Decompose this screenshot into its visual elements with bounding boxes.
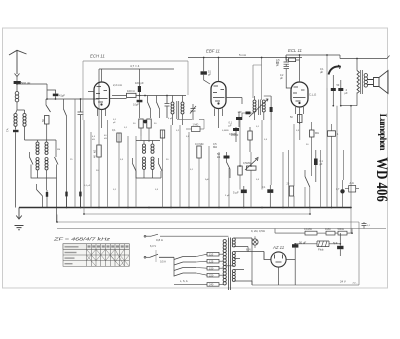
svg-text:A-Ω: A-Ω [350, 182, 354, 185]
coil osc1 right upper [45, 142, 48, 154]
capacitor antenna [13, 130, 19, 132]
svg-text:4 µF: 4 µF [168, 118, 173, 120]
svg-text:150: 150 [209, 266, 214, 270]
electrolytic 5uF [241, 190, 247, 194]
capacitor 100pF det [246, 112, 251, 115]
svg-text:0,5MΩ: 0,5MΩ [243, 161, 251, 165]
coil osc1 left lower [36, 158, 39, 170]
resistor 0.5M det [248, 131, 252, 140]
svg-text:Zu L.: Zu L. [353, 283, 358, 285]
capacitor 41pF [53, 94, 59, 97]
tap resistor 150 [207, 266, 219, 270]
capacitor 0.1uF [236, 117, 242, 120]
wire rail drop T2 [253, 58, 262, 101]
transformer heater winding [232, 238, 235, 247]
transformer primary winding [223, 240, 226, 285]
svg-text:0,1 µF: 0,1 µF [84, 185, 91, 187]
tap resistor 220 [207, 273, 219, 277]
svg-text:5 mA: 5 mA [239, 53, 246, 57]
svg-text:AZ 11: AZ 11 [272, 245, 285, 250]
IF T2 core [258, 100, 260, 116]
rectifier AZ11 [271, 252, 286, 267]
svg-text:0,5 A: 0,5 A [160, 260, 166, 264]
svg-text:100: 100 [238, 111, 243, 114]
resistor 500 row [338, 231, 347, 235]
svg-text:µF: µF [320, 70, 323, 74]
svg-text:500Ω: 500Ω [338, 227, 344, 231]
IF T2 coil left [253, 100, 256, 112]
capacitor 51pF [201, 71, 207, 74]
switch tone [305, 177, 310, 188]
svg-text:500 pF: 500 pF [21, 81, 31, 85]
svg-text:0,5MΩ: 0,5MΩ [222, 130, 229, 132]
coil osc2 right lower [151, 157, 154, 169]
tap resistor 240 [207, 283, 219, 287]
svg-text:ZF = 468/4/7 kHz: ZF = 468/4/7 kHz [52, 237, 110, 242]
svg-text:220: 220 [209, 273, 214, 277]
dial lamp [252, 239, 258, 245]
svg-text:9, 2Ω, 0,5Ω: 9, 2Ω, 0,5Ω [251, 229, 265, 233]
capacitor trim2 [165, 96, 170, 119]
voltage selector [174, 257, 196, 277]
resistor mid2 [160, 130, 164, 138]
svg-text:0,8 A: 0,8 A [156, 238, 163, 242]
ground [16, 208, 22, 220]
IF T1 coil right [181, 102, 184, 114]
svg-text:5 µF: 5 µF [225, 195, 230, 197]
capacitor c-left3 [79, 192, 81, 197]
capacitor el2 [338, 88, 343, 91]
output transformer secondary [364, 74, 367, 88]
capacitor 500pF [14, 81, 21, 84]
capacitor tone [314, 159, 318, 166]
transformer LT winding [232, 270, 235, 282]
mains terminal lower [144, 256, 146, 258]
capacitor 100pF [138, 86, 141, 92]
resistor 40k [97, 145, 101, 157]
trimmer capacitor [78, 99, 84, 208]
resistor 1M mid [192, 127, 201, 132]
capacitor 50k [224, 156, 230, 159]
svg-text:0,3 MΩ: 0,3 MΩ [195, 142, 203, 146]
resistor 0.3M right [310, 130, 315, 137]
capacitor el1 [331, 88, 336, 91]
field choke Fkdr [317, 241, 329, 247]
junction blob [340, 189, 344, 193]
border frame [3, 28, 388, 288]
svg-text:6,3 V: 6,3 V [150, 244, 156, 248]
resistor 0.1M row [305, 231, 317, 235]
ZF table [63, 244, 129, 267]
svg-text:2,2 mA: 2,2 mA [113, 83, 122, 87]
switch S6 [148, 102, 151, 109]
mains switch [150, 254, 174, 257]
vertical wires [75, 88, 351, 208]
svg-text:C,L,Ω: C,L,Ω [309, 93, 316, 97]
capacitor right edge [362, 222, 367, 229]
svg-text:4,7 = 4: 4,7 = 4 [130, 64, 140, 68]
svg-text:ECH 11: ECH 11 [90, 54, 105, 59]
coil antenna input [15, 92, 19, 102]
resistor 0.3M [197, 146, 201, 158]
svg-text:kΩ: kΩ [93, 150, 97, 153]
svg-text:110: 110 [209, 252, 214, 256]
capacitor ECL grid a [284, 58, 290, 65]
IF T2 coil right [262, 100, 265, 112]
shield box [83, 61, 188, 120]
svg-text:L, S, A: L, S, A [180, 279, 188, 283]
coil osc1 left upper [36, 142, 39, 154]
svg-text:10pF: 10pF [133, 103, 139, 107]
electrolytic af2 [267, 189, 273, 193]
electrolytic 50uF [292, 244, 298, 247]
tube ECL11 [291, 82, 308, 107]
resistor right box [349, 186, 356, 193]
svg-text:24 V: 24 V [340, 280, 346, 284]
svg-text:kΩ: kΩ [217, 155, 220, 159]
switch S2 [64, 109, 67, 116]
output transformer primary [357, 71, 359, 94]
resistor 30k [289, 58, 296, 62]
switch osc2 b [159, 164, 163, 172]
rail ECL [286, 55, 340, 70]
electrolytic 8uF [337, 246, 343, 249]
svg-text:Lumophon: Lumophon [377, 114, 387, 152]
coil osc2 left upper [142, 144, 145, 153]
resistor mid1 [117, 133, 121, 142]
IF T1 core [177, 101, 179, 119]
switch S7 [157, 102, 160, 109]
svg-text:kΩ: kΩ [104, 138, 107, 140]
switch S4 [55, 157, 59, 165]
svg-text:pF: pF [208, 73, 211, 77]
coil osc2 left lower [142, 157, 145, 169]
capacitor c-left2 [65, 192, 67, 197]
transformer core [228, 238, 230, 291]
capacitor 10pF [137, 100, 143, 103]
resistor r-if2 [147, 119, 151, 128]
antenna [9, 50, 27, 74]
resistor 1M row [326, 231, 335, 235]
wire y119 [177, 119, 204, 129]
transformer HV winding [232, 252, 235, 267]
wire grid line [17, 84, 99, 99]
coil osc1 right lower [45, 158, 48, 170]
svg-text:8µF: 8µF [333, 241, 338, 245]
svg-text:0,1MΩ: 0,1MΩ [304, 227, 312, 231]
junction blob T1 [143, 120, 147, 124]
capacitor pad [46, 192, 48, 197]
ground bus [19, 207, 351, 209]
resistor 20k [289, 186, 293, 196]
rail 5mA [188, 57, 302, 59]
svg-text:3M: 3M [57, 149, 60, 151]
switch S1 [46, 105, 51, 112]
rail 4.7 [99, 69, 174, 99]
rail y222 [57, 215, 359, 223]
svg-text:µF: µF [229, 124, 232, 128]
speaker [368, 71, 389, 94]
svg-text:100 pF: 100 pF [135, 81, 144, 85]
capacitor ECL grid b [284, 64, 292, 88]
svg-text:100pF: 100pF [231, 133, 239, 137]
svg-text:MΩ: MΩ [213, 145, 217, 149]
svg-text:1 MΩ: 1 MΩ [193, 124, 199, 127]
rail y228 [57, 208, 386, 286]
IF T1 coil left [171, 102, 174, 114]
output transformer core [361, 70, 363, 94]
svg-text:41pF: 41pF [59, 94, 65, 98]
trimmer T1 [190, 104, 196, 120]
svg-text:µF: µF [345, 91, 348, 95]
coil osc2 right upper [151, 144, 154, 153]
svg-text:kΩ: kΩ [92, 139, 95, 141]
tube ECH11 [94, 82, 110, 110]
coil L1a [14, 114, 17, 127]
resistor 1M right [328, 131, 336, 137]
svg-text:TA: TA [6, 128, 10, 132]
svg-text:6,3V: 6,3V [246, 249, 251, 252]
capacitor det [270, 107, 273, 112]
resistor af1 [238, 166, 242, 175]
svg-text:240: 240 [209, 283, 214, 287]
svg-text:kΩ: kΩ [276, 61, 279, 65]
wire osc top [25, 140, 57, 154]
junction dots [66, 207, 68, 209]
switch osc2 a [133, 164, 137, 172]
svg-text:5 µF: 5 µF [233, 191, 239, 195]
tube EBF11 [211, 82, 226, 109]
rail y214 [84, 208, 310, 215]
svg-text:125: 125 [209, 259, 214, 263]
svg-text:0,1: 0,1 [112, 128, 116, 132]
T2 tuning arrow [249, 99, 268, 117]
resistor cathode ECL [298, 115, 303, 123]
svg-text:5µF: 5µF [205, 179, 209, 181]
svg-text:1MΩ: 1MΩ [325, 227, 331, 231]
svg-text:Fkdr.: Fkdr. [318, 248, 324, 252]
switch S3 [30, 157, 34, 165]
resistor 100ohm [127, 93, 137, 97]
switch S5 [37, 190, 43, 197]
svg-text:ECL 11: ECL 11 [288, 48, 303, 53]
magic arc [329, 66, 341, 74]
wire osc2 top [136, 141, 160, 145]
tap resistor 125 [207, 259, 219, 263]
svg-text:MΩ: MΩ [315, 132, 319, 135]
coil L1b [23, 114, 26, 127]
svg-text:WD 406: WD 406 [373, 157, 390, 202]
resistor 50 [45, 116, 50, 125]
tap resistor 110 [207, 252, 219, 256]
resistor r-if1 [139, 119, 143, 128]
bottom line [252, 252, 359, 286]
svg-text:100 Ω: 100 Ω [127, 89, 135, 93]
fuse 0.8A [151, 234, 228, 236]
switch af [227, 162, 231, 169]
wire top T1 [145, 96, 186, 103]
capacitor 100pF2 [233, 128, 239, 131]
mains terminal upper [144, 235, 146, 237]
svg-text:EBF 11: EBF 11 [206, 49, 221, 54]
volume pot 0.5M [247, 166, 257, 170]
wire speaker top [340, 55, 390, 106]
